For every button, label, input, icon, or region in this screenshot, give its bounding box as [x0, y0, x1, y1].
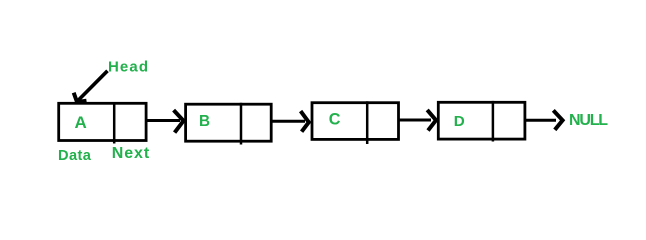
- svg-text:A: A: [75, 113, 87, 132]
- svg-text:NULL: NULL: [569, 112, 608, 129]
- svg-text:C: C: [329, 111, 341, 129]
- svg-text:D: D: [454, 113, 465, 130]
- svg-text:Head: Head: [108, 58, 149, 75]
- svg-text:Next: Next: [112, 145, 150, 162]
- svg-text:B: B: [199, 113, 210, 130]
- svg-text:Data: Data: [58, 148, 92, 164]
